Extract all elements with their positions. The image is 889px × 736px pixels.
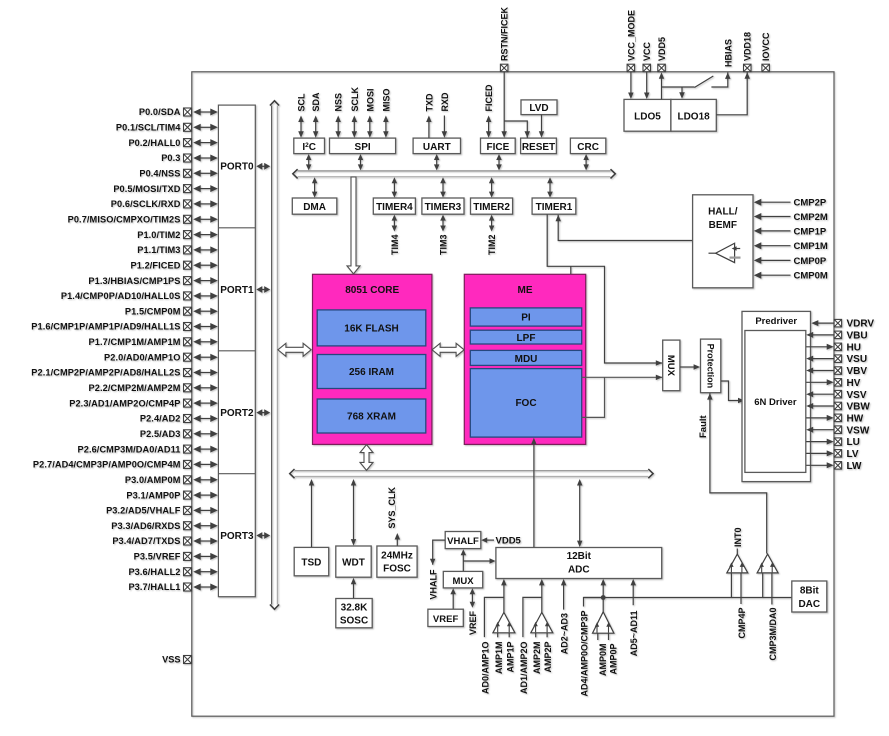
svg-text:AMP1P: AMP1P: [505, 642, 515, 673]
block LDO18: [671, 99, 716, 131]
block UART: [413, 138, 460, 154]
svg-text:VSS: VSS: [162, 655, 180, 665]
svg-text:HW: HW: [847, 414, 864, 425]
label HBIAS: [723, 39, 733, 67]
svg-text:CMP0M: CMP0M: [794, 271, 828, 282]
svg-text:RESET: RESET: [522, 142, 555, 153]
svg-text:LPF: LPF: [517, 333, 536, 344]
wire TIMER1 to ME and MUX: [547, 214, 662, 365]
svg-text:CMP0P: CMP0P: [794, 256, 827, 267]
block 6N Driver: [745, 331, 806, 473]
svg-text:PORT0: PORT0: [220, 162, 254, 173]
top bus down to core arrow: [347, 177, 360, 274]
svg-text:AMP0P: AMP0P: [609, 644, 619, 675]
svg-text:Protection: Protection: [705, 344, 715, 389]
wire RSTN to FICE: [501, 72, 507, 138]
pin HW: [806, 414, 864, 425]
svg-text:NSS: NSS: [334, 93, 344, 112]
pin VDD18: [743, 32, 753, 72]
pin P3.2/AD5/VHALF: [106, 506, 218, 516]
svg-text:HBIAS: HBIAS: [723, 39, 733, 67]
svg-text:P1.5/CMP0M: P1.5/CMP0M: [125, 306, 181, 316]
svg-text:P2.3/AD1/AMP2O/CMP4P: P2.3/AD1/AMP2O/CMP4P: [69, 398, 180, 408]
block 768 XRAM: [317, 399, 426, 433]
block 8051 CORE: [313, 274, 432, 444]
wire switch to HBIAS: [711, 72, 730, 87]
svg-text:CMP2P: CMP2P: [794, 198, 827, 209]
svg-text:CMP4P: CMP4P: [737, 608, 747, 639]
svg-text:AMP2P: AMP2P: [543, 642, 553, 673]
wire VCC to LDO5: [644, 72, 650, 99]
svg-text:TIM2: TIM2: [487, 235, 497, 256]
svg-text:TIMER3: TIMER3: [425, 202, 462, 213]
wire FOC to MUX: [582, 375, 663, 418]
svg-text:VHALF: VHALF: [447, 536, 479, 547]
signal MOSI: [365, 88, 375, 137]
pin VDRV: [811, 319, 874, 330]
svg-text:P1.6/CMP1P/AMP1P/AD9/HALL1S: P1.6/CMP1P/AMP1P/AD9/HALL1S: [31, 322, 180, 332]
block PI: [470, 308, 581, 326]
wire PORT1 to bus: [256, 286, 270, 293]
block DMA: [292, 198, 337, 214]
svg-text:VBW: VBW: [847, 402, 871, 413]
svg-text:SOSC: SOSC: [340, 616, 368, 627]
svg-text:AD4/AMP0O/CMP3P: AD4/AMP0O/CMP3P: [580, 611, 590, 697]
pin HV: [806, 378, 861, 389]
wire RSTN branch to RESET: [504, 121, 530, 138]
pin P2.4/AD2: [140, 414, 218, 424]
wire SOSC to WDT: [351, 578, 356, 598]
svg-text:P3.2/AD5/VHALF: P3.2/AD5/VHALF: [106, 506, 181, 516]
svg-text:CMP2M: CMP2M: [794, 212, 828, 223]
svg-text:VDRV: VDRV: [847, 319, 875, 330]
pin IOVCC: [761, 32, 771, 72]
pin P0.7/MISO/CMPXO/TIM2S: [68, 215, 218, 225]
block TIMER1: [532, 198, 576, 214]
wire bus to TIMER4: [392, 177, 398, 197]
svg-text:SDA: SDA: [311, 92, 321, 112]
pin VBU: [806, 331, 867, 342]
pin P3.4/AD7/TXDS: [112, 536, 217, 546]
pin LW: [806, 461, 862, 472]
pin HU: [806, 342, 861, 353]
wire bus to TIMER2: [489, 177, 495, 197]
signal CMP0P: [754, 256, 827, 267]
signal MISO: [381, 88, 391, 137]
svg-text:LV: LV: [847, 449, 859, 460]
signal CMP0M: [754, 271, 828, 282]
svg-text:TXD: TXD: [424, 93, 434, 112]
signal AD2~AD3: [560, 579, 570, 654]
svg-text:P2.1/CMP2P/AMP2P/AD8/HALL2S: P2.1/CMP2P/AMP2P/AD8/HALL2S: [31, 368, 180, 378]
pin P1.4/CMP0P/AD10/HALL0S: [61, 291, 218, 301]
wire UART to bus: [434, 154, 440, 170]
svg-text:LDO18: LDO18: [677, 112, 710, 123]
svg-text:P1.7/CMP1M/AMP1M: P1.7/CMP1M/AMP1M: [89, 337, 181, 347]
svg-text:MISO: MISO: [381, 88, 391, 111]
svg-text:ME: ME: [518, 285, 533, 296]
svg-text:FOSC: FOSC: [383, 564, 411, 575]
svg-text:Predriver: Predriver: [755, 316, 797, 327]
signal FICED: [484, 84, 494, 138]
svg-text:HALL/: HALL/: [708, 207, 738, 218]
signal TXD: [424, 93, 434, 138]
signal CMP1P: [754, 226, 827, 237]
svg-text:RSTN/FICEK: RSTN/FICEK: [500, 6, 510, 61]
svg-text:6N Driver: 6N Driver: [754, 397, 797, 408]
block MUX (driver select): [663, 340, 680, 391]
chip outer border: [192, 72, 834, 716]
svg-text:P2.7/AD4/CMP3P/AMP0O/CMP4M: P2.7/AD4/CMP3P/AMP0O/CMP4M: [33, 460, 181, 470]
block MUX (adc input): [443, 571, 482, 588]
block LVD: [521, 100, 557, 115]
svg-text:P3.4/AD7/TXDS: P3.4/AD7/TXDS: [112, 536, 180, 546]
pin P1.5/CMP0M: [125, 306, 218, 316]
pin P2.7/AD4/CMP3P/AMP0O/CMP4M: [33, 460, 218, 470]
wire LVD to RESET: [539, 115, 544, 138]
pin P3.3/AD6/RXDS: [111, 521, 218, 531]
svg-text:VREF: VREF: [433, 614, 459, 625]
svg-text:TIMER4: TIMER4: [376, 202, 413, 213]
svg-text:CMP3M/DA0: CMP3M/DA0: [768, 608, 778, 661]
svg-text:AMP0M: AMP0M: [598, 644, 608, 677]
pin VCC_MODE: [626, 10, 636, 72]
svg-text:FICE: FICE: [487, 142, 510, 153]
svg-text:PORT1: PORT1: [220, 285, 254, 296]
wire MUX to Protection: [680, 364, 700, 370]
svg-text:8051 CORE: 8051 CORE: [345, 285, 399, 296]
pin P1.0/TIM2: [137, 230, 218, 240]
svg-text:VREF: VREF: [468, 611, 478, 636]
block WDT: [336, 546, 371, 577]
svg-text:TIMER1: TIMER1: [536, 202, 573, 213]
svg-text:16K FLASH: 16K FLASH: [344, 324, 398, 335]
svg-text:TIM3: TIM3: [439, 235, 449, 256]
pin VBV: [806, 366, 867, 377]
svg-text:VDD18: VDD18: [743, 32, 753, 61]
signal TIM4: [390, 215, 400, 255]
pin VCC: [642, 41, 652, 71]
8051 core to ME arrow: [432, 343, 464, 356]
svg-text:256 IRAM: 256 IRAM: [349, 367, 394, 378]
pin P3.0/AMP0M: [125, 475, 218, 485]
svg-text:FICED: FICED: [484, 84, 494, 112]
svg-text:P3.1/AMP0P: P3.1/AMP0P: [126, 490, 180, 500]
block SPI: [330, 138, 396, 154]
block FICE: [481, 138, 516, 154]
pin VSV: [806, 390, 867, 401]
op-amp AMP1: [484, 579, 515, 637]
svg-text:P2.6/CMP3M/DA0/AD11: P2.6/CMP3M/DA0/AD11: [78, 444, 181, 454]
svg-text:P2.2/CMP2M/AMP2M: P2.2/CMP2M/AMP2M: [89, 383, 181, 393]
block LDO5: [624, 99, 671, 131]
svg-text:FOC: FOC: [515, 398, 536, 409]
pin P2.1/CMP2P/AMP2P/AD8/HALL2S: [31, 368, 218, 378]
svg-text:LVD: LVD: [529, 103, 548, 114]
svg-text:CMP1P: CMP1P: [794, 226, 827, 237]
svg-text:VHALF: VHALF: [428, 569, 438, 599]
wire VDD5 to VHALF: [481, 536, 521, 547]
block 24MHz FOSC: [377, 546, 417, 577]
wire CRC to bus: [583, 154, 589, 170]
op-amp AMP2: [523, 579, 553, 637]
pin VSS: [162, 655, 191, 665]
wire I2C to bus: [306, 154, 312, 170]
wire WDT to bus: [351, 479, 356, 546]
svg-text:AD1/AMP2O: AD1/AMP2O: [519, 642, 529, 695]
block TIMER2: [471, 198, 513, 214]
pin RSTN/FICEK: [500, 6, 510, 71]
pin P2.0/AD0/AMP1O: [104, 352, 218, 362]
comparator CMP3 (fault): [757, 554, 778, 604]
svg-text:IOVCC: IOVCC: [761, 32, 771, 61]
block 8Bit DAC: [792, 581, 827, 612]
svg-text:8Bit: 8Bit: [800, 586, 820, 597]
label AMP2 pins: [519, 642, 553, 695]
svg-text:CMP1M: CMP1M: [794, 241, 828, 252]
svg-text:DAC: DAC: [798, 599, 820, 610]
svg-text:P3.7/HALL1: P3.7/HALL1: [128, 582, 180, 592]
pin P2.3/AD1/AMP2O/CMP4P: [69, 398, 218, 408]
wire Fault from comparator to Protection: [698, 393, 767, 553]
block ME: [464, 274, 585, 444]
wire VDD5 branch to LDO18 and switch: [662, 76, 714, 99]
svg-text:P0.4/NSS: P0.4/NSS: [139, 169, 180, 179]
svg-text:P0.3: P0.3: [161, 153, 180, 163]
signal CMP2M: [754, 212, 828, 223]
pin P0.2/HALL0: [128, 138, 217, 148]
block MDU: [470, 350, 581, 365]
svg-text:P0.1/SCL/TIM4: P0.1/SCL/TIM4: [116, 123, 181, 133]
svg-text:32.8K: 32.8K: [341, 603, 368, 614]
block 32.8K SOSC: [336, 599, 372, 628]
svg-text:AD5~AD11: AD5~AD11: [629, 611, 639, 657]
label AMP0 pins: [580, 611, 619, 697]
svg-text:HV: HV: [847, 378, 861, 389]
pin P1.1/TIM3: [137, 245, 218, 255]
pin P2.2/CMP2M/AMP2M: [89, 383, 218, 393]
pin P0.0/SDA: [139, 107, 218, 117]
svg-text:SCLK: SCLK: [350, 87, 360, 112]
svg-text:VSV: VSV: [847, 390, 867, 401]
svg-text:VDD5: VDD5: [496, 536, 522, 547]
wire TSD to bus: [309, 479, 314, 547]
wire LDO18 to VDD18: [716, 72, 750, 115]
pin LV: [806, 449, 859, 460]
svg-text:P1.1/TIM3: P1.1/TIM3: [137, 245, 180, 255]
block TIMER4: [373, 198, 415, 214]
svg-text:TSD: TSD: [301, 558, 321, 569]
wire FOSC SYS_CLK to bus: [387, 486, 400, 545]
wire bus to TIMER3: [440, 177, 446, 197]
svg-text:PORT3: PORT3: [220, 531, 254, 542]
signal SCLK: [350, 87, 360, 138]
svg-text:MUX: MUX: [665, 355, 676, 377]
svg-text:CRC: CRC: [577, 142, 599, 153]
svg-text:MDU: MDU: [515, 354, 538, 365]
wire Protection to 6N driver: [721, 381, 745, 403]
block CRC: [570, 138, 605, 154]
pin P0.4/NSS: [139, 169, 217, 179]
svg-text:VCC: VCC: [642, 41, 652, 61]
pin P0.6/SCLK/RXD: [111, 199, 218, 209]
block VREF: [428, 609, 463, 626]
signal SDA: [311, 92, 321, 138]
vertical peripheral bus: [270, 101, 279, 610]
svg-text:VCC_MODE: VCC_MODE: [626, 10, 636, 61]
pin LU: [806, 437, 860, 448]
pin P1.3/HBIAS/CMP1PS: [88, 276, 217, 286]
svg-text:MUX: MUX: [452, 576, 474, 587]
comparator INT0: [727, 527, 748, 604]
svg-text:P3.6/HALL2: P3.6/HALL2: [128, 567, 180, 577]
svg-text:P1.0/TIM2: P1.0/TIM2: [137, 230, 180, 240]
wire bus to DMA: [312, 177, 318, 197]
svg-text:BEMF: BEMF: [709, 220, 737, 231]
block Predriver: [742, 311, 811, 481]
svg-text:SCL: SCL: [297, 93, 307, 112]
svg-text:768 XRAM: 768 XRAM: [347, 412, 396, 423]
pin P0.1/SCL/TIM4: [116, 123, 218, 133]
pin VBW: [806, 402, 870, 413]
svg-text:AD2~AD3: AD2~AD3: [560, 613, 570, 654]
signal CMP2P: [754, 198, 827, 209]
pin P3.5/VREF: [134, 552, 218, 562]
svg-text:P0.2/HALL0: P0.2/HALL0: [128, 138, 180, 148]
svg-text:Fault: Fault: [698, 414, 709, 438]
signal CMP1M: [754, 241, 828, 252]
svg-text:I2C: I2C: [302, 142, 316, 153]
signal TIM2: [487, 215, 497, 255]
svg-text:INT0: INT0: [733, 527, 743, 547]
signal AD5~AD11: [629, 579, 639, 656]
svg-text:PI: PI: [521, 313, 531, 324]
wire bus to ADC: [577, 479, 583, 547]
block TIMER3: [422, 198, 464, 214]
label CMP4P: [737, 608, 747, 639]
lower horizontal bus: [290, 469, 653, 478]
svg-text:TIMER2: TIMER2: [473, 202, 510, 213]
wire VHALF output down: [428, 540, 445, 599]
svg-text:VBV: VBV: [847, 366, 868, 377]
wire LDO5 to VDD5: [659, 72, 664, 99]
label AMP1 pins: [480, 642, 515, 695]
wire DAC bus line: [584, 597, 792, 599]
svg-text:P1.4/CMP0P/AD10/HALL0S: P1.4/CMP0P/AD10/HALL0S: [61, 291, 181, 301]
wire VCC_MODE to LDO5: [628, 72, 634, 99]
svg-text:P1.3/HBIAS/CMP1PS: P1.3/HBIAS/CMP1PS: [88, 276, 180, 286]
block FOC: [470, 369, 581, 438]
core bottom to lower bus arrow: [360, 445, 373, 471]
block Protection: [701, 339, 721, 393]
pin P1.6/CMP1P/AMP1P/AD9/HALL1S: [31, 322, 218, 332]
block 256 IRAM: [317, 355, 426, 389]
svg-text:UART: UART: [423, 142, 451, 153]
bus to 8051 core arrow: [278, 343, 311, 356]
pin P3.7/HALL1: [128, 582, 217, 592]
block HALL/BEMF: [693, 195, 753, 288]
svg-text:P1.2/FICED: P1.2/FICED: [130, 260, 180, 270]
block I2C: [294, 138, 325, 154]
svg-text:RXD: RXD: [440, 92, 450, 112]
svg-text:SPI: SPI: [355, 142, 371, 153]
block 12Bit ADC: [496, 548, 662, 579]
pin P0.5/MOSI/TXD: [113, 184, 217, 194]
wire VREF to MUX: [450, 588, 456, 609]
wire HALL/BEMF to TIMER1: [556, 215, 693, 241]
pin P2.5/AD3: [140, 429, 218, 439]
signal NSS: [334, 93, 344, 138]
signal SCL: [297, 93, 307, 138]
wire FICE to bus: [496, 154, 502, 170]
block RESET: [521, 138, 557, 154]
svg-text:VSU: VSU: [847, 354, 868, 365]
svg-text:AMP1M: AMP1M: [494, 642, 504, 675]
wire FOC to ADC: [531, 438, 537, 547]
svg-text:TIM4: TIM4: [390, 235, 400, 256]
block TSD: [294, 547, 329, 575]
wire PORT3 to bus: [256, 532, 270, 539]
block 16K FLASH: [317, 310, 426, 346]
signal RXD: [440, 92, 450, 138]
svg-text:AMP2M: AMP2M: [532, 642, 542, 675]
wire MUX to VHALF and ADC: [461, 549, 496, 571]
wire PORT0 to bus: [256, 163, 270, 170]
label CMP3M/DA0: [768, 608, 778, 661]
pin VSU: [806, 354, 867, 365]
svg-text:VDD5: VDD5: [657, 37, 667, 61]
svg-text:VSW: VSW: [847, 425, 870, 436]
pin P1.2/FICED: [130, 260, 217, 270]
svg-text:MOSI: MOSI: [365, 88, 375, 111]
wire VREF pin stub: [468, 588, 478, 635]
wire PORT2 to bus: [256, 409, 270, 416]
svg-text:LW: LW: [847, 461, 863, 472]
svg-text:LU: LU: [847, 437, 860, 448]
svg-text:P0.7/MISO/CMPXO/TIM2S: P0.7/MISO/CMPXO/TIM2S: [68, 215, 181, 225]
pin VDD5: [657, 37, 667, 72]
pin P1.7/CMP1M/AMP1M: [89, 337, 218, 347]
svg-text:PORT2: PORT2: [220, 408, 254, 419]
svg-text:VBU: VBU: [847, 331, 868, 342]
svg-text:SYS_CLK: SYS_CLK: [387, 486, 397, 528]
svg-text:24MHz: 24MHz: [381, 551, 413, 562]
svg-text:LDO5: LDO5: [634, 112, 661, 123]
svg-text:P2.0/AD0/AMP1O: P2.0/AD0/AMP1O: [104, 352, 180, 362]
svg-text:AD0/AMP1O: AD0/AMP1O: [480, 642, 490, 695]
svg-text:P0.5/MOSI/TXD: P0.5/MOSI/TXD: [113, 184, 180, 194]
svg-text:DMA: DMA: [303, 202, 326, 213]
svg-text:P2.4/AD2: P2.4/AD2: [140, 414, 181, 424]
top horizontal bus: [293, 169, 616, 178]
svg-text:P0.6/SCLK/RXD: P0.6/SCLK/RXD: [111, 199, 181, 209]
svg-text:P3.3/AD6/RXDS: P3.3/AD6/RXDS: [111, 521, 180, 531]
pin P0.3: [161, 153, 218, 163]
pin VSW: [806, 425, 870, 436]
svg-text:P3.0/AMP0M: P3.0/AMP0M: [125, 475, 181, 485]
svg-text:ADC: ADC: [568, 565, 590, 576]
svg-text:P0.0/SDA: P0.0/SDA: [139, 107, 181, 117]
pin P3.6/HALL2: [128, 567, 217, 577]
block PORT0-PORT3 column: [218, 105, 255, 597]
signal TIM3: [439, 215, 449, 255]
op-amp AMP0: [584, 579, 614, 640]
wire SPI to bus: [358, 154, 363, 170]
block LPF: [470, 330, 581, 344]
wire bus to TIMER1: [547, 177, 553, 197]
pin P3.1/AMP0P: [126, 490, 217, 500]
svg-text:P3.5/VREF: P3.5/VREF: [134, 552, 181, 562]
